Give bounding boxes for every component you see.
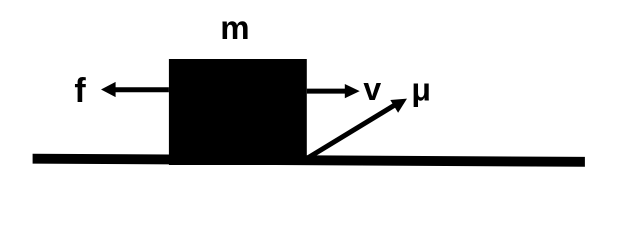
svg-text:f: f xyxy=(74,72,86,110)
arrow v (velocity, pointing right) xyxy=(307,84,360,98)
arrow f (friction, pointing left) xyxy=(101,82,169,97)
svg-text:v: v xyxy=(363,71,381,107)
block mass m xyxy=(169,59,307,165)
svg-text:μ: μ xyxy=(411,71,431,107)
svg-text:m: m xyxy=(220,9,249,46)
arrow mu (diagonal, pointing up-right) xyxy=(309,99,408,158)
ground xyxy=(33,154,585,167)
